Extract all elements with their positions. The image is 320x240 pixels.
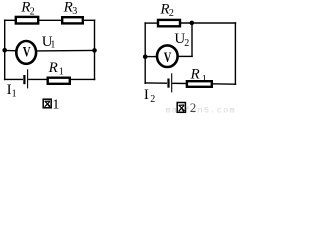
svg-text:2: 2 xyxy=(150,94,155,105)
wire: fig1 left vertical xyxy=(4,20,6,81)
wire: fig1 top, between R2 and R3 xyxy=(39,19,62,21)
svg-text:1: 1 xyxy=(50,39,55,50)
svg-text:R: R xyxy=(48,60,58,76)
wire: fig1 top, left of R2 xyxy=(4,19,16,21)
svg-text:R: R xyxy=(190,66,200,82)
voltmeter U2 (fig2) xyxy=(157,45,178,67)
svg-text:1: 1 xyxy=(52,97,59,112)
svg-text:2: 2 xyxy=(169,8,174,19)
wire: fig1 top, right of R3 xyxy=(83,19,96,21)
wire: fig1 voltmeter branch, right xyxy=(35,49,94,52)
node: fig1 left junction xyxy=(2,48,7,53)
resistor R3 (fig1) xyxy=(62,17,83,23)
caption 图1 glyph "图" xyxy=(43,99,51,108)
battery (fig2): long thin positive plate xyxy=(171,73,173,92)
resistor R2 (fig1) xyxy=(16,17,38,24)
svg-text:manfen5.com: manfen5.com xyxy=(166,105,236,114)
battery (fig1): long thin positive plate xyxy=(27,69,29,88)
svg-text:V: V xyxy=(164,48,172,65)
svg-text:2: 2 xyxy=(190,100,197,114)
svg-text:I: I xyxy=(144,87,149,103)
node: fig1 right junction xyxy=(92,48,97,53)
wire: fig2 left vertical xyxy=(144,22,146,84)
resistor R1 (fig1) xyxy=(48,78,70,84)
wire: fig2 bottom, battery to R1 xyxy=(172,82,187,84)
svg-text:2: 2 xyxy=(184,38,189,49)
voltmeter U1 (fig1) xyxy=(16,41,36,64)
wire: fig2 right vertical xyxy=(234,22,236,85)
wire: fig1 bottom, battery to R1 xyxy=(28,78,48,80)
wire: fig2 top, left of R2 xyxy=(144,22,158,24)
svg-text:1: 1 xyxy=(202,74,207,85)
wire: fig2 top, right of R2 xyxy=(180,22,236,24)
svg-text:3: 3 xyxy=(72,6,77,17)
node: fig2 left junction xyxy=(143,55,148,60)
wire: fig2 voltmeter branch, right xyxy=(177,55,193,57)
wire: fig2 voltmeter branch, vertical up to top junction xyxy=(191,23,193,57)
wire: fig2 bottom, left of battery xyxy=(144,82,167,84)
resistor R1 (fig2) xyxy=(187,81,212,87)
wire: fig2 bottom, right of R1 xyxy=(211,83,236,85)
svg-text:2: 2 xyxy=(30,6,35,17)
svg-text:V: V xyxy=(23,43,31,60)
battery (fig1): short thick negative plate xyxy=(23,75,25,84)
wire: fig1 bottom, right of R1 xyxy=(70,78,96,80)
caption 图2 glyph "图" xyxy=(177,103,185,113)
wire: fig2 voltmeter branch, left xyxy=(145,56,157,58)
battery (fig2): short thick negative plate xyxy=(167,79,169,88)
wire: fig1 voltmeter branch, left xyxy=(5,49,17,51)
svg-text:1: 1 xyxy=(59,66,64,77)
svg-text:1: 1 xyxy=(12,88,17,99)
resistor R2 (fig2) xyxy=(158,20,180,26)
wire: fig1 bottom, left of battery xyxy=(4,78,23,80)
wire: fig1 right vertical xyxy=(94,20,96,81)
node: fig2 top junction xyxy=(190,21,195,26)
